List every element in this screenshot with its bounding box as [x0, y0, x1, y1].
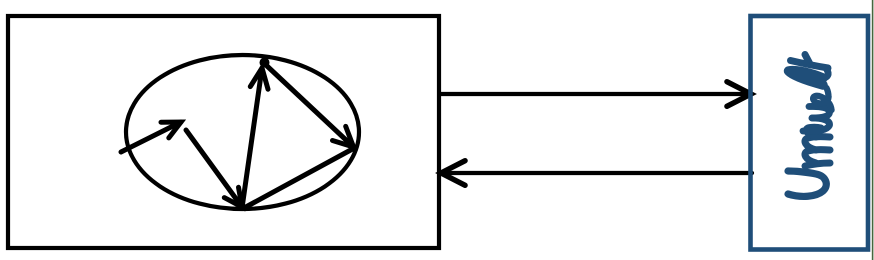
arrow D (top dot down-right)	[267, 66, 354, 147]
wire E (bottom node to right node)	[244, 149, 353, 208]
wire bottom arrow (Umwelt to system)	[441, 161, 752, 186]
arrow C (bottom node up to top dot)	[242, 68, 268, 208]
label Umwelt (script, rotated)	[788, 55, 832, 197]
arrow A (lower-left up-right)	[121, 122, 181, 152]
slide edge line (green)	[872, 0, 874, 260]
arrow B (down to bottom node)	[186, 130, 242, 207]
system box (large black rectangle)	[8, 16, 439, 248]
node dot (top)	[260, 58, 270, 68]
Umwelt box (blue rectangle)	[751, 16, 869, 250]
ellipse (operation loop boundary)	[126, 55, 359, 209]
wire top arrow (system to Umwelt)	[441, 82, 751, 107]
